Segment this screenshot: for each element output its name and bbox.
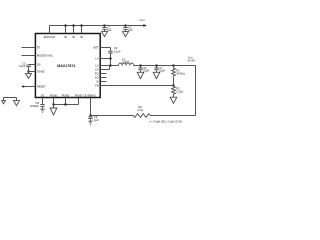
wire IN stub 3 xyxy=(81,26,83,34)
wire input supply rail VSUP xyxy=(50,25,144,27)
wire ground tie xyxy=(4,98,17,101)
wire EN/UVLO stub to input rail xyxy=(49,26,51,34)
svg-text:PGND: PGND xyxy=(62,94,70,98)
svg-text:BST: BST xyxy=(94,45,99,49)
node junction PGND1 xyxy=(53,104,55,106)
inductor L1 xyxy=(111,63,134,65)
wire PGND stub 2 xyxy=(65,98,67,105)
wire BST pin xyxy=(100,47,110,49)
node arrow RESET output xyxy=(21,85,24,88)
svg-text:2.2kΩ: 2.2kΩ xyxy=(176,89,183,93)
svg-text:SS: SS xyxy=(41,94,45,98)
svg-text:CS: CS xyxy=(95,68,99,72)
node junction IN1 xyxy=(65,25,67,27)
svg-text:C4: C4 xyxy=(114,46,118,50)
ground chassis left xyxy=(2,101,6,104)
wire FB pin xyxy=(100,85,173,87)
svg-text:PGND: PGND xyxy=(50,94,58,98)
svg-text:SS: SS xyxy=(37,62,41,66)
wire SS bottom stub xyxy=(42,98,44,105)
node junction FB xyxy=(173,85,175,87)
wire PGND bus xyxy=(54,104,79,106)
capacitor C9 xyxy=(88,116,92,122)
node junction C1 xyxy=(104,25,106,27)
svg-text:1µF: 1µF xyxy=(94,118,99,122)
ground below C9 xyxy=(88,121,92,126)
svg-text:IN: IN xyxy=(80,35,83,39)
wire VOUT rail xyxy=(134,65,196,67)
wire IN stub 2 xyxy=(73,26,75,34)
svg-text:L = 3.3µH (5V), 2.2µH (3.3V): L = 3.3µH (5V), 2.2µH (3.3V) xyxy=(149,120,182,124)
node junction divider top xyxy=(173,65,175,67)
svg-text:PGND: PGND xyxy=(75,94,83,98)
svg-text:SO: SO xyxy=(95,76,99,80)
node junction PGND2 xyxy=(65,104,67,106)
svg-text:3.3µH: 3.3µH xyxy=(122,60,129,64)
node junction IN3 xyxy=(81,25,83,27)
node junction C7 xyxy=(156,65,158,67)
svg-text:5V/3A: 5V/3A xyxy=(188,58,195,62)
svg-text:49.9kΩ: 49.9kΩ xyxy=(176,71,184,75)
op-amp U1 body MAX17874 xyxy=(35,34,100,98)
resistor R3 xyxy=(133,114,150,118)
capacitor C8 xyxy=(40,105,44,110)
svg-text:RT: RT xyxy=(37,45,41,49)
svg-text:LX: LX xyxy=(95,64,98,68)
wire CS pin loop xyxy=(100,66,109,70)
svg-text:SI: SI xyxy=(96,80,99,84)
svg-text:VSUP: VSUP xyxy=(140,18,146,22)
svg-text:0.1µF: 0.1µF xyxy=(19,64,26,68)
svg-text:IN: IN xyxy=(72,35,75,39)
wire LX bus xyxy=(110,53,112,66)
wire sense to BIAS xyxy=(91,115,134,117)
wire SYNCIN stub xyxy=(100,81,106,83)
node junction LX1 xyxy=(110,58,112,60)
wire SGND pin xyxy=(29,71,36,73)
ground below R2 xyxy=(170,97,177,103)
wire MODE/SYNC pin xyxy=(22,55,36,57)
ground below C3 xyxy=(26,72,32,79)
wire IN stub 1 xyxy=(65,26,67,34)
wire OUT/BIAS stub xyxy=(90,98,92,116)
capacitor C3 xyxy=(26,65,30,72)
svg-text:SGND: SGND xyxy=(37,69,45,73)
svg-text:FB: FB xyxy=(95,83,99,87)
resistor R1 xyxy=(172,66,176,86)
wire PGND stub 1 xyxy=(53,98,55,105)
wire VOUT sense down xyxy=(195,66,197,116)
node junction LX2 xyxy=(110,65,112,67)
resistor R2 xyxy=(172,86,176,98)
svg-text:OUT/BIAS: OUT/BIAS xyxy=(83,94,95,98)
node junction SGND/C3 xyxy=(28,71,30,73)
wire SYNCOUT stub xyxy=(100,77,106,79)
node junction C2 xyxy=(125,25,127,27)
svg-text:PG: PG xyxy=(95,72,99,76)
capacitor C2 xyxy=(123,26,128,32)
ground right of tie xyxy=(14,101,20,106)
svg-text:2200pF: 2200pF xyxy=(30,104,39,108)
capacitor C4 bootstrap xyxy=(108,48,112,54)
node junction C6 xyxy=(140,65,142,67)
ground below C2 xyxy=(123,32,129,37)
ground below C7 xyxy=(153,72,160,78)
ground below C6 xyxy=(137,72,144,78)
capacitor C6 xyxy=(138,66,142,73)
svg-text:LX: LX xyxy=(95,57,98,61)
ground PGND xyxy=(50,105,57,116)
wire PGOOD stub xyxy=(100,73,106,75)
svg-text:IN: IN xyxy=(64,35,67,39)
wire LX pin 2 xyxy=(100,65,111,67)
svg-text:MODE/SYNC: MODE/SYNC xyxy=(37,53,53,57)
wire RT pin xyxy=(22,47,36,49)
svg-text:4.7Ω: 4.7Ω xyxy=(137,108,143,112)
node junction IN2 xyxy=(73,25,75,27)
ground below C8 xyxy=(40,109,44,112)
ground below C1 xyxy=(102,32,108,37)
wire RESET pin xyxy=(24,86,36,88)
node junction BIAS xyxy=(90,115,92,117)
capacitor C7 xyxy=(154,66,158,73)
wire PGND stub 3 xyxy=(78,98,80,105)
wire LX pin 1 xyxy=(100,58,110,60)
capacitor C1 xyxy=(102,26,107,32)
svg-text:EN/UVLO: EN/UVLO xyxy=(44,35,55,39)
svg-text:MAX17874: MAX17874 xyxy=(57,64,75,68)
wire SS pin xyxy=(29,64,36,66)
wire sense bottom xyxy=(150,115,195,117)
svg-text:0.1µF: 0.1µF xyxy=(114,49,121,53)
node arrow VSUP xyxy=(143,24,147,27)
svg-text:RESET: RESET xyxy=(37,84,46,88)
